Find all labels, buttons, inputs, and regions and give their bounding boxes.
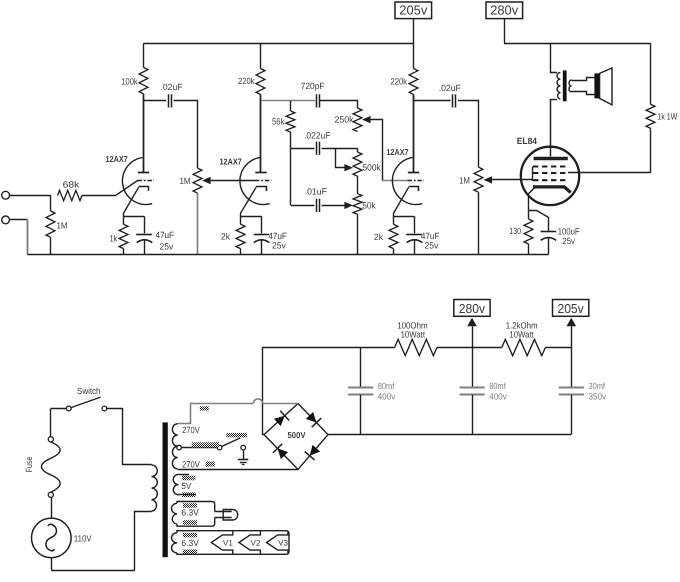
transformer OT core [563,70,567,101]
wire B+ rail (output stage, 280v) [504,43,651,45]
node 205v supply box (top) [395,2,432,19]
resistor R 2k (V2 cathode) [236,216,245,254]
svg-text:500k: 500k [363,163,382,173]
svg-text:68k: 68k [63,179,80,189]
center tap terminal [177,445,182,450]
hatch mark (above 5V) [182,476,195,481]
center tap switch terminal [217,445,222,450]
svg-text:25v: 25v [425,241,439,251]
wire mains bottom rail [51,558,135,571]
svg-text:25v: 25v [562,236,575,246]
transformer PT primary winding [152,465,158,511]
pentode EL84 envelope [521,147,579,205]
svg-text:6.3V: 6.3V [181,508,198,518]
wire V3 cathode junction bar [393,216,414,218]
transformer 5V winding [173,474,196,494]
capacitor C 80mf 400v (second filter) [460,348,485,435]
capacitor C .022uF (bass) [317,142,320,155]
pot 50k wiper arrow [344,202,353,209]
arrow to 205v box [567,318,577,348]
diode D1 (left-top) [274,411,289,426]
svg-text:Switch: Switch [77,386,101,396]
wire EL84 cathode lead [529,188,535,211]
node 280v output box [454,300,490,317]
resistor R 100Ohm 10Watt [395,339,437,355]
potentiometer 250k (treble pot) [353,108,362,132]
input jack J2 [2,216,10,224]
wire 720pF to 250k pot top [320,101,358,109]
wire coupling to master pot [458,101,479,168]
resistor R 130 (EL84 cathode) [524,210,533,254]
wire stub to 500k wiper [336,148,345,167]
wire 220k top lead (stage3) [413,43,415,68]
wire center tap [181,447,217,449]
wire V1 plate line [143,94,145,173]
triode V1a cathode [139,187,149,192]
label 30mf 350v [589,381,607,401]
wire 56k bottom vertical [290,148,292,205]
svg-text:80mf: 80mf [378,381,395,391]
resistor R 1k 1W (screen dropper) [646,43,655,173]
wire J2 down to ground rail [27,219,29,254]
wire switch to transformer primary [107,409,152,465]
triode V1a grid [138,180,155,182]
switch S1 (mains) [66,397,106,411]
pentode EL84 cathode [533,187,571,193]
label 220k (stage2) [238,76,255,86]
fuse F1 [41,437,60,498]
hatch mark (above CT lever) [226,433,247,437]
pot 1M wiper arrow [202,177,211,184]
svg-text:50k: 50k [362,201,376,211]
svg-text:6.3V: 6.3V [181,538,198,548]
label .01uF [305,187,328,197]
wire 110V to fuse [51,497,53,518]
wire V1a cathode junction bar [123,216,144,218]
svg-text:5V: 5V [181,481,191,491]
wire J1 to grid resistor [10,195,51,197]
capacitor C 720pF (treble) [317,94,320,107]
label 720pF [301,81,325,91]
center tap switch lever [222,438,241,447]
svg-text:130: 130 [509,226,521,236]
capacitor C .01uF [317,199,320,212]
wire OT primary top lead [551,43,558,72]
wire master pot to ground [478,192,480,254]
svg-text:1k 1W: 1k 1W [657,112,677,122]
wire filter ground rail [328,434,571,436]
resistor R 1k (V1 cathode) [119,216,128,254]
heater tap V3 [267,531,289,554]
svg-text:2k: 2k [221,232,230,242]
wire .01uF to 50k wiper [322,205,345,207]
potentiometer 50k (mid pot) [353,194,362,215]
wire V1 grid diagonal lead [116,181,138,196]
pot 250k wiper arrow [362,116,371,123]
wire 500k to 50k [357,176,359,194]
label 220k (stage3) [391,77,408,87]
wire V2 plate line [260,95,262,173]
label 270V (top half) [182,425,200,435]
wire 1M wiper to V2 grid [211,180,255,182]
svg-text:V1: V1 [223,539,233,548]
svg-text:250k: 250k [335,115,354,125]
label 1k [110,234,118,244]
label 1k 1W [657,112,677,122]
wire OT secondary to speaker (bottom) [572,92,595,95]
potentiometer 500k (bass pot) [353,148,362,176]
svg-text:270V: 270V [182,425,200,435]
diode D2 (top-right) [306,412,321,427]
label 500V (bridge) [288,430,306,440]
label 500k [363,163,382,173]
label 6.3V (heaters) [181,538,198,548]
pentode EL84 grid g1 (control) [533,179,568,181]
pentode EL84 grid g2 (screen) [533,172,568,174]
hatch mark (below 5V) [182,492,195,497]
heater tap V1 [211,531,233,554]
svg-text:10Watt: 10Watt [509,330,534,340]
svg-text:12AX7: 12AX7 [106,154,128,164]
wire B+ rail (preamp, 205v) [143,43,413,45]
label 250k [335,115,354,125]
label 47uF 25v (V2) [268,231,287,251]
label 2k (V3) [374,232,383,242]
svg-text:220k: 220k [238,76,255,86]
label 1.2kOhm 10Watt [506,320,538,339]
label 12AX7 (second stage) [220,157,242,167]
pentode EL84 plate [534,157,568,160]
label 68k [63,179,80,189]
svg-text:12AX7: 12AX7 [220,157,242,167]
bridge rectifier outline [264,404,328,470]
wire HT top lead [178,404,254,424]
svg-text:110V: 110V [74,534,92,544]
wire EL84 grid bracket [532,167,534,181]
triode V2 grid [255,180,272,182]
capacitor C 47uF 25v (V3 cathode bypass) [406,216,422,254]
node 205v output box [553,300,589,317]
svg-text:1M: 1M [57,221,68,231]
hatch mark (HT top lead) [200,406,209,410]
label 1M (input) [57,221,68,231]
svg-text:.02uF: .02uF [161,82,183,92]
capacitor C .02uF (stage1 coupling) [169,94,172,107]
wire 220k top lead (stage2) [260,43,262,68]
pentode EL84 grid g3 [533,165,568,167]
wire hop over B+ vertical [253,399,298,404]
pot 1M master wiper arrow [484,176,493,183]
hatch mark (below 6.3V #1) [183,520,197,525]
triode V1a 12AX7 envelope [122,158,152,205]
triode V1a plate [138,94,149,173]
speaker horn [600,68,612,105]
transformer OT secondary winding [569,80,572,92]
wire screen feed g2 [568,172,651,174]
hatch mark (below 6.3V #2) [183,550,197,555]
capacitor C 100uF 25v (EL84 bypass) [541,232,557,255]
node 280v supply box (top) [486,2,523,19]
svg-text:100k: 100k [121,77,138,87]
hatch mark (above 6.3V #1) [183,503,197,508]
wire master wiper to EL84 grid [492,179,532,181]
wire V2 plate to tone stack [261,100,315,102]
source AC 110V [32,518,72,558]
svg-text:720pF: 720pF [301,81,325,91]
wire 50k bottom to ground [357,214,359,254]
wire EL84 plate lead [550,99,552,156]
pilot lamp [215,510,238,521]
wire 100k top lead [143,43,145,67]
wire .01uF line [291,205,314,207]
svg-text:80mf: 80mf [489,381,506,391]
svg-text:EL84: EL84 [517,136,537,146]
wire EL84 cathode junction [529,211,549,232]
wire V2 cathode junction bar [241,216,262,218]
svg-text:25v: 25v [272,241,286,251]
capacitor C 80mf 400v (first filter) [348,348,373,435]
diode D4 (bottom-left) [273,444,288,459]
transformer 6.3V winding (pilot) [172,502,215,527]
svg-text:280v: 280v [459,301,486,316]
wire .022uF to 500k top [322,148,358,150]
triode V2 plate [255,95,266,173]
wire .022uF line [291,148,314,150]
svg-text:.02uF: .02uF [439,83,461,93]
resistor R 56k (tone slope) [286,101,295,148]
wire J2 stub [10,219,28,221]
wire 68k to V1 grid [82,195,116,197]
label 270V (bottom half) [182,460,200,470]
label EL84 [517,136,537,146]
input jack J1 [2,191,10,199]
resistor R 100k (V1 plate load) [139,67,148,93]
wire OT secondary to speaker (top) [572,78,595,81]
pot 500k wiper arrow [344,164,353,171]
speaker driver bar [594,73,599,98]
wire pot bottom to ground [197,193,199,254]
transformer HT winding 270-0-270 [172,424,177,469]
resistor R 1M (input grid leak) [46,211,55,237]
heater tap V2 [239,531,261,554]
potentiometer 1M (volume) [193,168,202,193]
resistor R 68k (grid stopper) [58,190,83,200]
wire primary bottom lead [135,512,152,571]
svg-text:30mf: 30mf [589,381,606,391]
svg-text:500V: 500V [288,430,306,440]
svg-text:25v: 25v [160,242,174,252]
hatch mark (on CT wire) [192,442,219,447]
hatch mark (right of 270V bottom) [206,462,215,467]
transformer PT core [163,422,168,557]
svg-text:.022uF: .022uF [304,131,331,141]
potentiometer 1M (master volume) [474,167,483,192]
wire filter B+ rail left [262,347,395,349]
svg-text:205v: 205v [399,3,427,18]
wire V1 plate to coupling cap [143,100,166,102]
wire V3 plate line [413,95,415,173]
label Fuse [24,457,34,473]
wire 250k wiper to V3 grid [371,120,408,181]
label 1M (volume pot) [180,176,191,186]
wire V2 cathode lead [241,187,257,216]
label 50k [362,201,376,211]
ground symbol (center tap) [238,445,248,464]
label 1M (master) [459,176,470,186]
label 12AX7 (first stage) [106,154,128,164]
label .02uF (stage1) [161,82,183,92]
capacitor C 47uF 25v (V2 cathode bypass) [254,216,270,254]
label 2k (V2) [221,232,230,242]
label 100Ohm 10Watt [397,320,427,339]
capacitor C 30mf 350v (third filter) [559,348,584,435]
svg-text:220k: 220k [391,77,408,87]
label 47uF 25v (V1) [156,230,175,252]
wire rail to 205v node [545,347,571,349]
resistor R 220k (V2 plate load) [256,69,265,95]
svg-text:.01uF: .01uF [305,187,328,197]
wire rail 100Ohm to 1.2kOhm [437,347,502,349]
svg-text:56k: 56k [272,117,285,127]
label 47uF 25v (V3) [421,231,440,251]
wire HT bottom lead [178,468,299,470]
svg-text:V3: V3 [278,539,288,548]
label .022uF [304,131,331,141]
resistor R 2k (V3 cathode) [389,216,398,254]
svg-text:47uF: 47uF [268,231,287,241]
label 5V [181,481,191,491]
hatch mark (above 6.3V #2) [183,533,197,538]
capacitor C 47uF 25v (V1 cathode bypass) [136,216,152,254]
resistor R 1.2kOhm 10Watt [502,339,546,355]
wire 1M leads [50,195,52,254]
svg-text:350v: 350v [589,392,607,402]
triode V3 12AX7 envelope [392,158,422,205]
wire 280v box lead down to output rail [504,19,506,44]
wire V3 plate to output coupling cap [414,100,451,102]
triode V3 plate [408,95,419,173]
wire OT primary bottom lead [550,99,557,101]
label 12AX7 (third stage) [386,147,408,157]
svg-text:1k: 1k [110,234,118,244]
label 80mf 400v (second) [489,381,507,401]
svg-text:270V: 270V [182,460,200,470]
svg-text:1M: 1M [459,176,470,186]
label 56k [272,117,285,127]
label 130 [509,226,521,236]
svg-text:Fuse: Fuse [24,457,34,473]
triode V3 grid [408,180,425,182]
label Switch [77,386,101,396]
label 100uF 25v [558,227,580,246]
transformer OT primary winding [557,72,560,99]
wire V3 cathode lead [394,187,409,216]
capacitor C .02uF (output coupling) [453,94,456,107]
wire bridge output to filter rail [263,348,265,435]
label 80mf 400v (first) [378,381,396,401]
label 100k [121,77,138,87]
resistor R 220k (V3 plate load) [409,69,418,95]
svg-text:V2: V2 [251,539,261,548]
triode V2 cathode [256,187,266,192]
label 6.3V (pilot) [181,508,198,518]
diode D3 (right-bottom) [305,445,320,460]
wire fuse to switch [51,409,67,437]
triode V3 cathode [409,187,419,192]
arrow to 280v box [467,318,477,348]
svg-text:10Watt: 10Watt [401,330,426,340]
svg-text:47uF: 47uF [156,230,175,240]
wire V1a cathode lead [124,187,139,216]
wire 205v box lead down to B+ rail [413,19,415,44]
svg-text:400v: 400v [489,392,507,402]
svg-text:47uF: 47uF [421,231,440,241]
wire coupling cap to volume pot [174,101,198,169]
wire ground rail (top section) [27,254,548,256]
transformer 6.3V winding (heaters) [172,531,289,555]
svg-text:12AX7: 12AX7 [386,147,408,157]
svg-text:280v: 280v [490,3,518,18]
svg-text:2k: 2k [374,232,383,242]
label .02uF (stage3) [439,83,461,93]
triode V2 12AX7 envelope [240,158,270,205]
svg-text:400v: 400v [378,392,396,402]
svg-text:205v: 205v [558,301,585,316]
svg-text:1M: 1M [180,176,191,186]
label 110V [74,534,92,544]
